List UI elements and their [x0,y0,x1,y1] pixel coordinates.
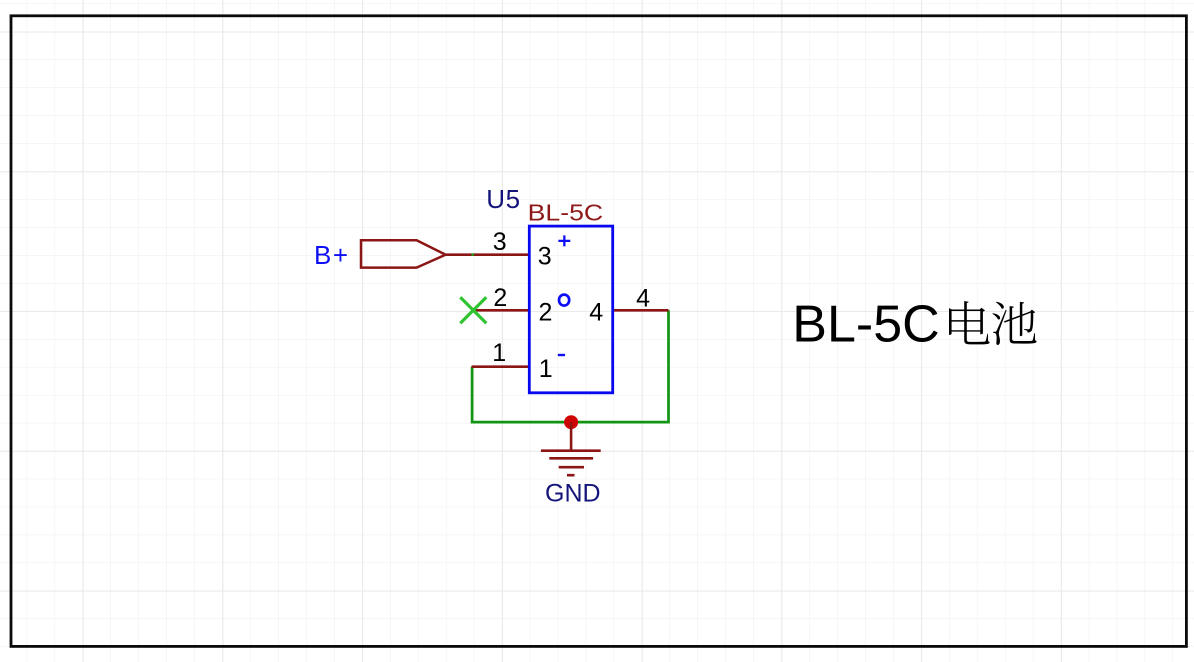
svg-text:BL-5C: BL-5C [528,199,604,225]
svg-text:GND: GND [545,480,601,508]
svg-text:B+: B+ [314,240,350,270]
svg-text:4: 4 [589,298,603,326]
svg-text:U5: U5 [486,184,520,214]
svg-text:3: 3 [538,243,552,271]
svg-text:2: 2 [539,298,553,326]
svg-text:1: 1 [539,355,553,383]
svg-text:4: 4 [636,285,650,313]
svg-text:2: 2 [493,284,507,312]
svg-text:1: 1 [492,339,506,367]
svg-text:3: 3 [493,228,507,256]
svg-text:BL-5C: BL-5C [792,296,939,354]
